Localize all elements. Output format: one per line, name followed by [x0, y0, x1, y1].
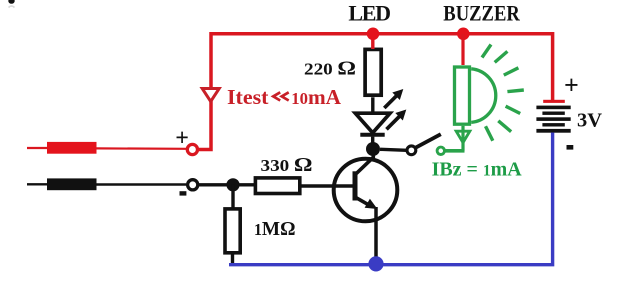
wire R1 to transistor base	[301, 184, 353, 187]
wire R3 to LED anode	[371, 97, 374, 112]
node B (LED cathode / collector / switch)	[366, 142, 380, 156]
red probe body	[47, 142, 97, 154]
wire node B to switch pole	[380, 149, 407, 150]
svg-text:+: +	[564, 71, 579, 100]
transistor Q1 (NPN)	[334, 149, 398, 221]
node + terminal (red open circle)	[187, 144, 197, 154]
wire Q1 emitter to ground rail	[374, 207, 378, 264]
svg-text:Itest: Itest	[227, 85, 269, 109]
svg-text:LED: LED	[348, 0, 391, 25]
svg-text:10mA: 10mA	[291, 85, 342, 109]
wire red probe tip lead	[27, 147, 47, 149]
wire red positive rail (from + terminal up and across to battery +)	[198, 34, 553, 150]
wire black probe tip lead	[27, 183, 47, 185]
svg-text:220Ω: 220Ω	[304, 58, 356, 80]
wire - terminal to junction	[198, 183, 254, 186]
svg-text:IBz = 1mA: IBz = 1mA	[432, 158, 522, 180]
wire blue ground rail (battery - to R2/emitter)	[229, 133, 553, 265]
svg-text:330Ω: 330Ω	[261, 154, 313, 176]
black probe body	[47, 178, 97, 190]
node ground junction (blue dot)	[368, 256, 383, 271]
wire junction A to R2	[231, 185, 234, 208]
current direction arrow Itest (red open triangle on wire)	[202, 89, 219, 102]
label Itest<<10mA	[227, 85, 342, 109]
resistor R2 1M ohm	[225, 209, 240, 253]
node BUZZER tap on red rail	[457, 28, 470, 41]
wire red rail to buzzer	[461, 34, 464, 65]
LED light emission arrow 1	[384, 89, 403, 108]
resistor R3 220 ohm	[365, 49, 381, 95]
svg-text:1MΩ: 1MΩ	[254, 218, 296, 240]
buzzer BZ1 body (green)	[455, 67, 496, 124]
wire red rail to R3	[371, 34, 374, 49]
node switch throw terminal (green open circle)	[437, 147, 444, 154]
node LED tap on red rail	[367, 28, 380, 41]
wire black probe to - terminal	[97, 183, 187, 185]
buzzer sound rays	[482, 45, 524, 141]
label - at probe terminal	[180, 191, 187, 195]
LED light emission arrow 2	[387, 110, 407, 130]
label - battery	[567, 145, 574, 150]
node junction A (base divider)	[226, 178, 239, 191]
wire red probe to + terminal	[97, 147, 187, 150]
corner artifact glyph	[8, 0, 14, 8]
LED D1	[355, 113, 390, 145]
switch SW1 (open)	[407, 134, 441, 155]
svg-text:BUZZER: BUZZER	[443, 0, 520, 25]
svg-text:+: +	[175, 125, 189, 151]
wire buzzer lead with IBz current arrow	[444, 126, 470, 151]
wire R2 to ground rail	[231, 254, 234, 264]
svg-text:3V: 3V	[577, 109, 603, 131]
battery BT1 3V	[536, 100, 570, 133]
node - terminal (black open circle)	[188, 180, 198, 190]
resistor R1 330 ohm	[255, 178, 299, 194]
